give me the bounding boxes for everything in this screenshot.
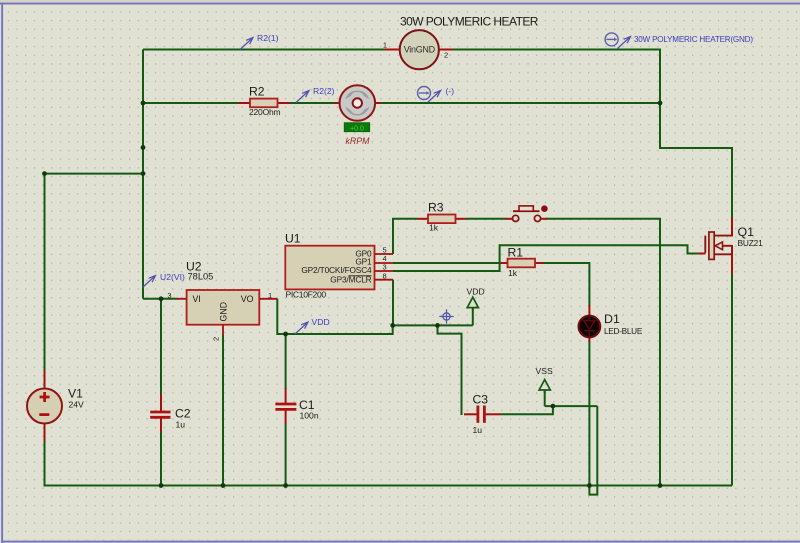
svg-text:VI: VI: [193, 294, 201, 304]
wire: VSS power stem: [544, 391, 546, 406]
capacitor C1: [275, 388, 296, 424]
wire: GP1 to R1: [393, 262, 501, 264]
junction: VSS node: [551, 404, 556, 409]
svg-text:+0.0: +0.0: [350, 125, 364, 132]
label arrow (-): [428, 91, 441, 103]
op U1 PIC10F200 body: [285, 246, 374, 290]
wire: C3 branch from VDD rail: [438, 325, 462, 415]
svg-text:V1: V1: [68, 387, 83, 401]
U1 pin 4 stub: [375, 254, 394, 263]
U2 pin 3 stub: [167, 291, 186, 300]
svg-text:8: 8: [383, 271, 387, 280]
junction: C2 at bus: [159, 483, 164, 488]
wire: V1 top vertical: [44, 174, 46, 371]
sheet border top: [0, 3, 800, 5]
wire: GP2 to Q1 gate: [393, 245, 698, 271]
junction: R2 net at left rail: [141, 101, 146, 106]
svg-text:D1: D1: [604, 312, 620, 326]
wire: R2 to motor: [290, 102, 336, 104]
wire: U1 pin5 up to R3: [393, 219, 417, 254]
svg-text:BUZ21: BUZ21: [738, 238, 764, 248]
label arrow VDD net: [295, 322, 308, 334]
wire: top heater net, left segment: [143, 49, 388, 51]
U1 pin name GP3/MCLR: [330, 274, 371, 284]
svg-text:3: 3: [383, 263, 387, 272]
junction: V1 branch left corner: [42, 171, 47, 176]
junction: C1 at bus: [283, 483, 288, 488]
label arrow U2(VI): [143, 276, 156, 288]
svg-text:R2(1): R2(1): [257, 33, 279, 43]
junction: R2 net at x660: [658, 101, 663, 106]
U1 pin 3 stub: [375, 263, 394, 272]
motor RPM readout: [344, 123, 370, 133]
wire: VSS jog below bus: [589, 406, 597, 495]
heater PL1 circle: [400, 30, 439, 69]
transistor Q1 BUZ21: [698, 217, 732, 274]
svg-text:R2(2): R2(2): [313, 86, 335, 96]
junction: V1 branch at left rail: [141, 171, 146, 176]
motor/tachometer on R2 net: [334, 85, 381, 121]
wire: VSS horizontal: [545, 405, 598, 407]
resistor R1: [501, 259, 544, 268]
sheet border left: [1, 3, 3, 543]
svg-text:30W POLYMERIC HEATER: 30W POLYMERIC HEATER: [400, 14, 539, 28]
svg-text:(-): (-): [446, 86, 455, 96]
svg-text:GND: GND: [219, 302, 229, 322]
capacitor C2: [150, 394, 170, 432]
svg-text:U1: U1: [285, 232, 301, 246]
svg-text:78L05: 78L05: [188, 272, 214, 282]
svg-text:30W POLYMERIC HEATER(GND): 30W POLYMERIC HEATER(GND): [634, 35, 753, 44]
svg-text:1k: 1k: [508, 268, 518, 278]
svg-text:5: 5: [383, 245, 387, 254]
junction: button wire at bus: [658, 483, 663, 488]
wire: heater pin2 to Q1 drain corner: [452, 50, 732, 218]
wire: U2 GND pin to bus: [222, 335, 224, 486]
svg-text:100n: 100n: [300, 410, 319, 420]
wire: VDD net from U2 VO: [277, 299, 473, 334]
svg-text:U2(VI): U2(VI): [160, 272, 185, 282]
diode D1 LED-BLUE: [579, 305, 601, 342]
svg-text:220Ohm: 220Ohm: [249, 107, 281, 117]
svg-text:1u: 1u: [176, 420, 186, 430]
svg-text:3: 3: [167, 291, 171, 300]
svg-text:LED-BLUE: LED-BLUE: [604, 327, 643, 336]
resistor R2: [238, 99, 290, 108]
wire: C2 bottom to bus: [160, 431, 162, 486]
svg-text:R3: R3: [428, 201, 444, 215]
svg-text:VSS: VSS: [536, 366, 553, 376]
window strip above sheet: [0, 0, 800, 3]
svg-text:Q1: Q1: [738, 225, 755, 239]
wire: C3 right to VSS node: [501, 406, 553, 414]
wire: VDD power stem: [472, 310, 474, 326]
wire: R1 to D1 anode: [543, 263, 589, 306]
wire: horizontal to V1 branch y173.6: [45, 173, 144, 175]
junction: D1 cathode at bus: [587, 483, 592, 488]
svg-text:VO: VO: [241, 294, 254, 304]
heater pin 1: [383, 41, 400, 50]
svg-text:C2: C2: [175, 407, 191, 421]
svg-text:VinGND: VinGND: [404, 45, 436, 55]
junction: C3 branch on VDD rail: [435, 323, 440, 328]
junction: U2 GND at bus: [221, 483, 226, 488]
svg-text:PIC10F200: PIC10F200: [286, 290, 327, 300]
terminal symbol heater GND: [605, 33, 618, 46]
resistor R3: [417, 215, 466, 224]
regulator U2 78L05 body: [187, 290, 260, 325]
terminal symbol (-): [418, 87, 431, 100]
node marker crosshair: [439, 309, 453, 323]
label arrow R2(1): [240, 38, 253, 50]
svg-text:2: 2: [212, 337, 221, 341]
wire: R2 net left segment (node to R2): [143, 102, 238, 104]
wire: button to bus at x660: [546, 219, 660, 486]
capacitor C3: [464, 406, 501, 423]
svg-text:R2: R2: [249, 84, 265, 98]
U1 pin 5 stub: [375, 245, 394, 254]
wire: R3 to button: [466, 218, 506, 220]
svg-text:VDD: VDD: [312, 317, 330, 327]
power VDD symbol: [467, 297, 478, 311]
U2 pin 2 stub: [212, 325, 224, 341]
heater pin 2: [439, 50, 453, 60]
svg-text:C3: C3: [473, 393, 489, 407]
wire: C1 top branch: [285, 334, 287, 389]
junction: pin8 joins VDD rail: [390, 323, 395, 328]
wire: U2 VI input: [143, 298, 178, 300]
sheet border bottom: [1, 541, 800, 543]
wire: V1 bottom to ground bus: [45, 440, 733, 486]
label arrow heater GND: [618, 37, 631, 49]
U1 pin 8 stub: [375, 271, 394, 280]
svg-text:1u: 1u: [473, 425, 483, 435]
pushbutton: [506, 205, 548, 221]
svg-text:VDD: VDD: [467, 287, 485, 297]
power VSS symbol: [539, 380, 550, 393]
svg-text:24V: 24V: [69, 400, 85, 410]
wire: left vertical rail x143: [142, 50, 144, 299]
svg-text:1: 1: [383, 41, 387, 50]
wire: C1 bottom to bus: [285, 424, 287, 486]
svg-text:1k: 1k: [429, 223, 439, 233]
junction: lone dot on left rail: [141, 145, 146, 150]
svg-text:1: 1: [268, 291, 272, 300]
svg-text:2: 2: [444, 51, 448, 60]
label arrow R2(2): [296, 91, 309, 103]
svg-text:R1: R1: [508, 245, 524, 259]
svg-text:kRPM: kRPM: [346, 136, 371, 146]
wire: D1 cathode to bus: [588, 341, 590, 486]
wire: C2 branch top: [160, 299, 162, 395]
junction: C2 branch on VI wire: [159, 296, 164, 301]
junction: C1 branch on VDD rail: [283, 332, 288, 337]
wire: motor to node at x660: [379, 102, 660, 104]
U2 pin 1 stub: [259, 291, 277, 300]
battery V1: [27, 370, 62, 441]
wire: U1 pin8 down to VDD rail: [392, 280, 394, 326]
wire: Q1 source down to bus: [731, 274, 733, 486]
